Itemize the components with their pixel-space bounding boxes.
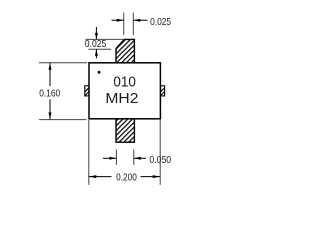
svg-text:0.025: 0.025 xyxy=(150,16,171,28)
svg-text:0.200: 0.200 xyxy=(116,172,137,184)
svg-text:010: 010 xyxy=(113,73,136,90)
svg-text:MH2: MH2 xyxy=(105,90,138,107)
svg-text:0.025: 0.025 xyxy=(85,38,107,50)
svg-text:0.160: 0.160 xyxy=(39,87,60,99)
